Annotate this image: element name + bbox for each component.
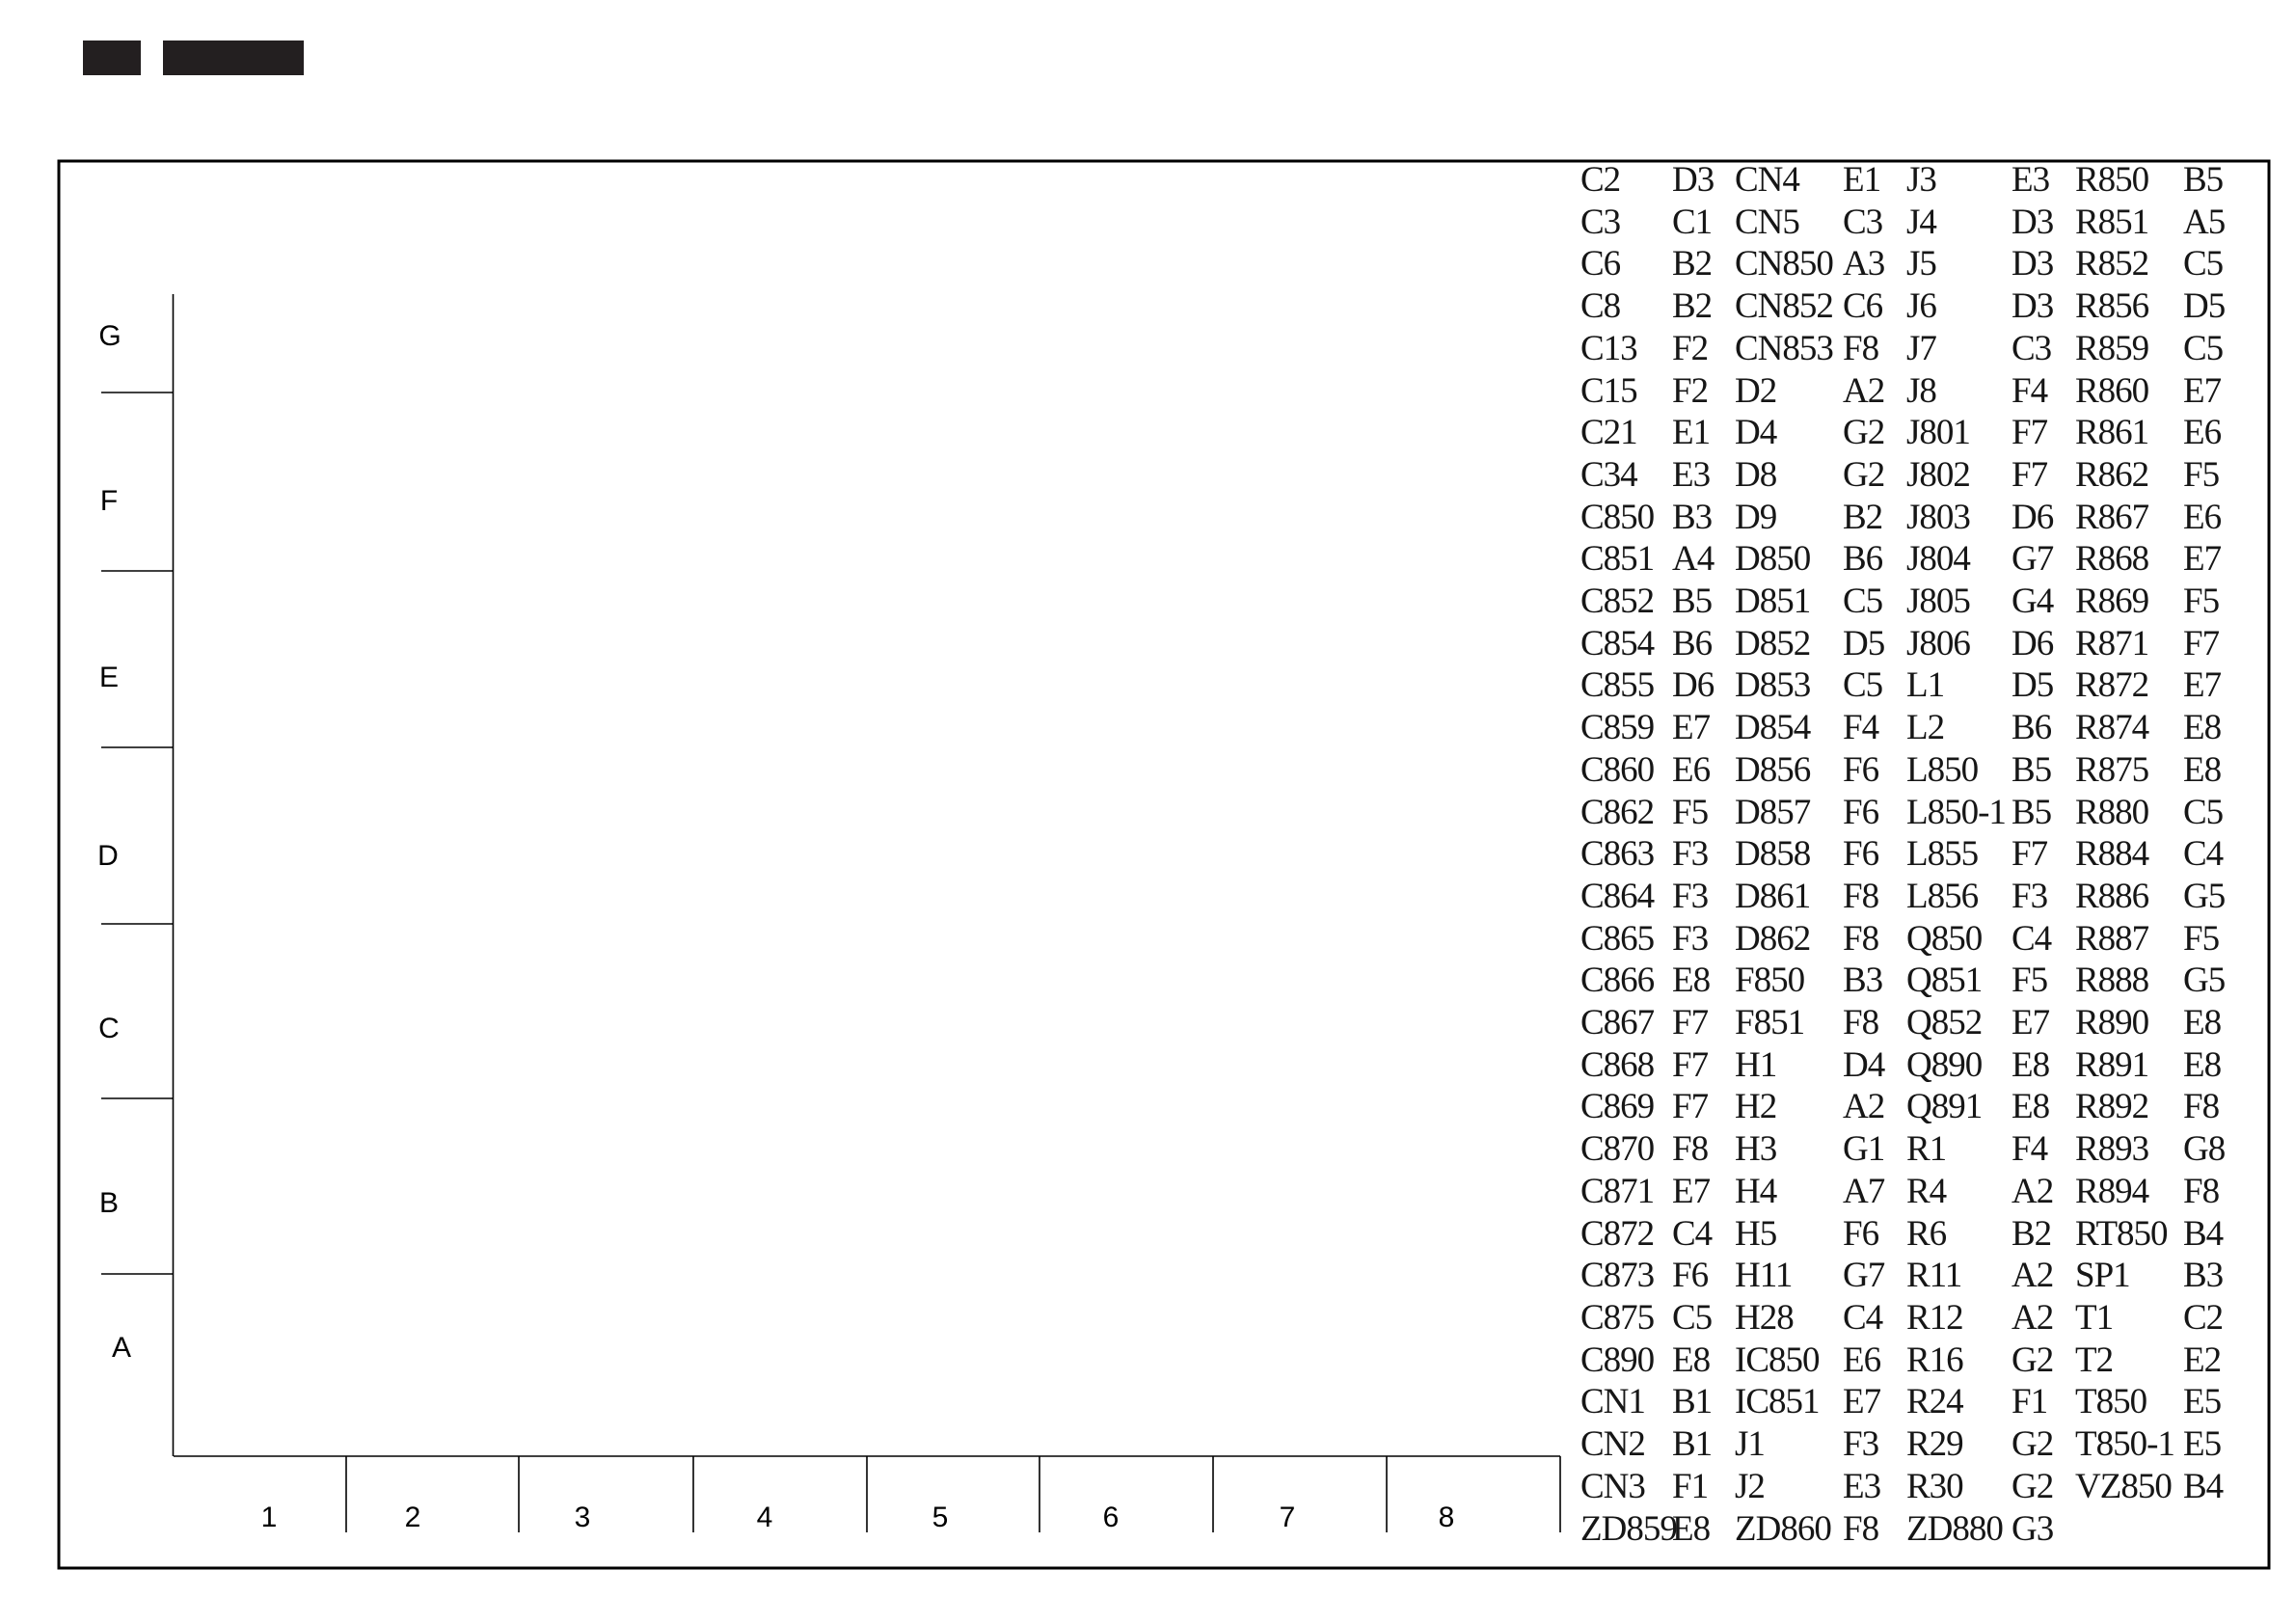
svg-text:3: 3 xyxy=(575,1502,591,1533)
svg-text:2: 2 xyxy=(405,1502,421,1533)
svg-text:E: E xyxy=(99,662,119,693)
svg-text:D: D xyxy=(97,840,119,872)
svg-text:1: 1 xyxy=(261,1502,278,1533)
svg-text:5: 5 xyxy=(932,1502,949,1533)
svg-text:7: 7 xyxy=(1280,1502,1296,1533)
svg-text:A: A xyxy=(112,1332,131,1364)
svg-text:6: 6 xyxy=(1103,1502,1120,1533)
svg-text:F: F xyxy=(100,485,118,517)
svg-text:G: G xyxy=(98,320,121,352)
svg-text:B: B xyxy=(99,1187,119,1219)
svg-text:4: 4 xyxy=(757,1502,773,1533)
svg-text:C: C xyxy=(98,1013,120,1044)
svg-text:8: 8 xyxy=(1439,1502,1455,1533)
